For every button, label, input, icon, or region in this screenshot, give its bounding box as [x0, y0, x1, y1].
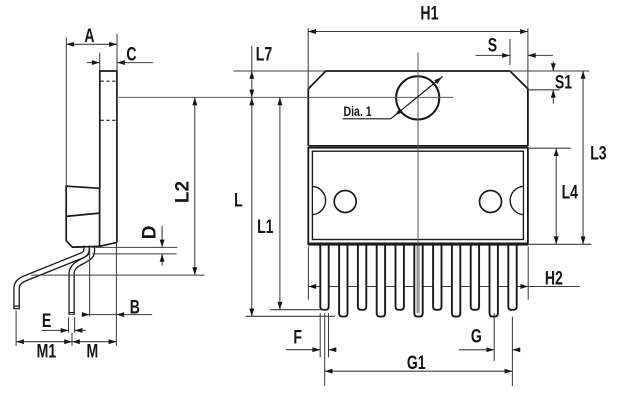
front view tab with chamfered corners	[308, 71, 528, 146]
dimension H1	[308, 28, 528, 89]
pin 1	[320, 243, 328, 310]
svg-text:L: L	[234, 190, 243, 212]
pin 8	[452, 243, 460, 317]
front view right dimple circle	[480, 191, 502, 213]
dimensions M1 and M	[16, 243, 116, 346]
svg-text:Dia. 1: Dia. 1	[344, 104, 372, 120]
svg-text:H1: H1	[420, 2, 438, 24]
svg-text:M1: M1	[37, 341, 57, 363]
svg-text:E: E	[42, 310, 51, 332]
pin 9	[471, 243, 479, 310]
svg-text:L4: L4	[562, 181, 579, 203]
dimension H2 line (behind pins)	[308, 246, 579, 299]
dimension D	[91, 226, 177, 266]
pin 5	[396, 243, 404, 310]
pin 10	[490, 243, 498, 317]
dimension A	[66, 34, 117, 186]
svg-text:G1: G1	[407, 352, 426, 374]
front view body outer rectangle	[308, 148, 528, 245]
pin 7	[433, 243, 441, 310]
svg-text:F: F	[293, 326, 302, 348]
svg-text:S: S	[488, 35, 497, 57]
dimension L3	[582, 71, 584, 244]
svg-text:L7: L7	[256, 44, 272, 66]
front view right side notch	[510, 186, 523, 214]
dimension L4	[529, 148, 591, 244]
dimension G	[459, 313, 520, 386]
pin 11	[508, 243, 516, 310]
svg-text:D: D	[139, 226, 160, 240]
dimension L2	[31, 97, 205, 275]
svg-text:M: M	[86, 341, 98, 363]
pin 4	[377, 243, 385, 317]
front view left dimple circle	[334, 191, 356, 213]
dimension B	[82, 251, 152, 317]
pin 2	[339, 243, 347, 317]
side view front lead (bent, outer row)	[13, 245, 86, 310]
dimension G1	[325, 313, 513, 386]
dimension S	[476, 39, 553, 65]
side view back lead (inner row)	[69, 245, 93, 315]
horizontal hole centerline at y=97.4	[117, 96, 454, 98]
svg-text:B: B	[130, 296, 140, 318]
pin 6 (center)	[414, 243, 422, 317]
side view tab outline	[100, 71, 117, 242]
side view tab dashed hole lines	[101, 81, 117, 120]
pin 3	[358, 243, 366, 310]
dimension L7	[251, 46, 253, 97]
svg-text:G: G	[471, 325, 482, 347]
front view mounting hole Dia.1	[396, 76, 439, 119]
front view pins 1-11	[320, 243, 516, 317]
dimension E	[42, 317, 86, 332]
svg-text:H2: H2	[545, 267, 563, 289]
side view body bottom edge over leads	[72, 245, 99, 248]
svg-text:L2: L2	[172, 181, 193, 203]
dimension L	[251, 97, 253, 316]
front view left side notch	[313, 186, 326, 214]
svg-text:L3: L3	[590, 143, 606, 165]
svg-text:L1: L1	[257, 216, 273, 238]
front view body inner rectangle	[312, 151, 523, 239]
front view body bottom thick band	[308, 243, 528, 246]
dimension S1	[510, 62, 589, 104]
svg-text:A: A	[84, 25, 94, 47]
dimension C	[87, 53, 153, 71]
svg-text:C: C	[126, 43, 136, 65]
extension line tab top left at y=71	[234, 70, 326, 72]
dimension L1	[279, 97, 281, 309]
vertical centerline of package	[417, 52, 419, 313]
side view body outline	[66, 186, 117, 247]
svg-text:S1: S1	[555, 71, 572, 93]
dimension F	[286, 313, 335, 357]
